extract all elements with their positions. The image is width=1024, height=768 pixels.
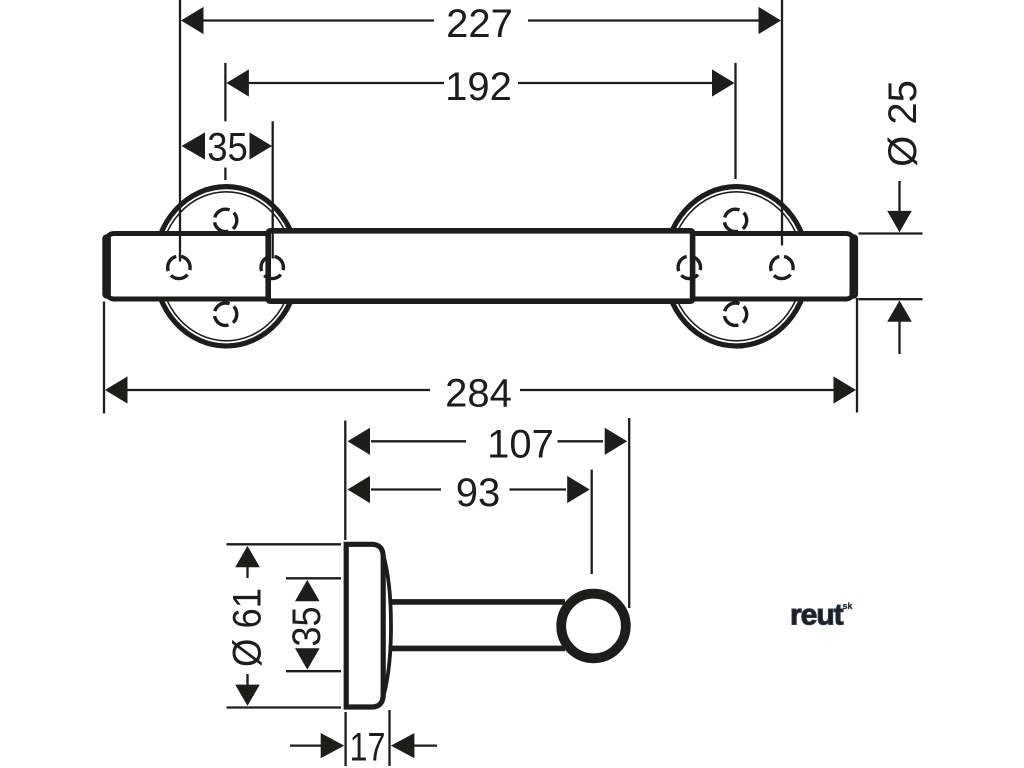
dimension 17: left stem + arrow xyxy=(290,744,322,746)
dimension 284: extension line right xyxy=(856,298,858,413)
screw hole left plate, north xyxy=(214,209,236,231)
dimension 284: extension line left xyxy=(103,302,105,414)
dimension diameter 25: upper line + arrow down xyxy=(898,181,900,213)
dimension diameter 61: top arrow + stem xyxy=(235,546,260,567)
svg-text:Ø 61: Ø 61 xyxy=(226,588,270,667)
dimension 192: line xyxy=(249,82,713,84)
extension line x=225 (dim 192 left, upper segment) xyxy=(224,63,226,121)
hook ball end xyxy=(561,594,626,659)
svg-text:Ø 25: Ø 25 xyxy=(881,80,925,167)
svg-text:192: 192 xyxy=(445,65,512,109)
dimension 35: bottom arrow xyxy=(295,648,320,669)
dimension 35: top arrow xyxy=(295,580,320,601)
dimension diameter 61: extension line bottom xyxy=(227,706,342,708)
hook arm bottom line xyxy=(389,646,566,652)
grab bar left end cap xyxy=(102,239,111,295)
dimension 93: left arrow xyxy=(348,476,371,503)
dimension 227: line xyxy=(203,19,759,21)
dimension diameter 25: lower line + arrow up xyxy=(898,320,900,354)
dimension 93: right arrow xyxy=(567,476,590,503)
extension line x=273 (dim 35 right) xyxy=(272,121,274,258)
extension line x=180 (dim 227 left) xyxy=(179,0,181,262)
dimension 17: right stem + arrow xyxy=(413,744,437,746)
extension line x=345.3 (wall plane upper) xyxy=(344,421,346,541)
dimension 35 (bolt circle): extension line bottom xyxy=(286,670,341,672)
dimension 35: left arrow xyxy=(182,132,206,159)
grab bar right end cap xyxy=(849,239,858,295)
svg-text:284: 284 xyxy=(445,371,512,415)
svg-text:227: 227 xyxy=(446,2,513,46)
grab bar middle grip section xyxy=(268,231,692,301)
grab bar tube (thin outer section) xyxy=(106,234,854,300)
dimension 107: left arrow xyxy=(348,428,371,455)
dimension 17: extension line left xyxy=(344,712,346,766)
screw hole left plate, south xyxy=(214,303,236,325)
dimension 93: line xyxy=(371,488,566,490)
dimension diameter 61: extension line top xyxy=(227,543,342,545)
screw hole right plate, east xyxy=(771,256,793,278)
dimension 284: right arrow xyxy=(834,376,857,403)
svg-text:107: 107 xyxy=(487,423,554,467)
screw hole right plate, north xyxy=(724,209,746,231)
dimension 107: line xyxy=(371,440,603,442)
svg-text:93: 93 xyxy=(456,471,501,515)
dimension 35 (bolt circle): extension line top xyxy=(286,577,341,579)
svg-text:sk: sk xyxy=(843,601,854,611)
svg-text:reut: reut xyxy=(790,599,844,632)
svg-text:35: 35 xyxy=(285,607,329,647)
extension line x=629.2 (hook depth 107) xyxy=(628,418,630,608)
svg-text:35: 35 xyxy=(207,126,248,170)
dimension 107: right arrow xyxy=(605,428,628,455)
screw hole left plate, west xyxy=(168,256,190,278)
wall flange dome arc xyxy=(383,552,392,700)
dimension 227: right arrow xyxy=(759,7,782,34)
extension line x=782 (dim 227 right) xyxy=(781,0,783,246)
wall flange side view outline xyxy=(346,544,383,707)
dimension 284: left arrow xyxy=(105,376,128,403)
dimension 192: right arrow xyxy=(712,69,735,96)
left mounting plate (ellipse) xyxy=(155,187,299,346)
dimension 35: right arrow xyxy=(250,132,273,159)
dimension 227: left arrow xyxy=(181,7,204,34)
dimension 284: line xyxy=(127,389,836,391)
screw hole left plate, east xyxy=(261,256,283,278)
extension line x=735.5 (dim 192 right) xyxy=(734,63,736,179)
right mounting plate (ellipse) xyxy=(665,187,809,346)
screw hole right plate, south xyxy=(724,303,746,325)
hook arm top line xyxy=(389,599,566,605)
dimension 17: extension line right xyxy=(388,710,390,766)
extension line x=225 (dim 192 left, short dash) xyxy=(224,168,226,181)
dimension diameter 25: extension line bottom xyxy=(859,298,923,300)
dimension diameter 25: extension line top xyxy=(859,232,923,234)
svg-text:17: 17 xyxy=(350,726,386,768)
extension line x=591.7 (93) xyxy=(591,470,593,574)
dimension 192: left arrow xyxy=(226,69,249,96)
dimension diameter 61: bottom arrow + stem xyxy=(235,685,260,706)
screw hole right plate, west xyxy=(678,256,700,278)
